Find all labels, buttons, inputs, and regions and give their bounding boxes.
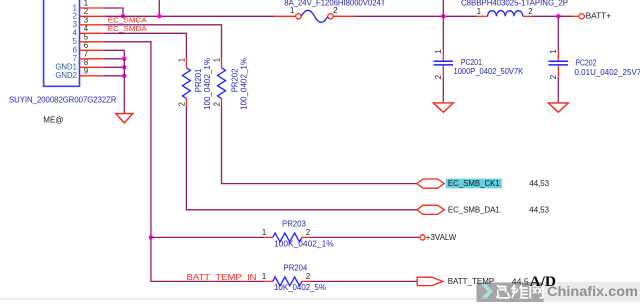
node junction pin6/pin7	[122, 57, 127, 62]
wire pin6	[80, 50, 125, 59]
svg-text:1: 1	[290, 6, 294, 15]
connector J1 SUYIN_200082GR007G232ZR body	[44, 0, 80, 86]
watermark banner background	[0, 282, 640, 302]
svg-text:EC_SMB_DA1: EC_SMB_DA1	[448, 205, 500, 214]
svg-text:PC202: PC202	[575, 58, 596, 67]
capacitor PC202 reference label	[575, 58, 596, 67]
sheet reference 44,53 for CK1	[529, 179, 549, 188]
sheet reference 44,5 for BATT_TEMP	[512, 277, 530, 286]
wire PR201 to EC_SMB_DA1	[186, 105, 417, 209]
resistor PR203 reference label	[282, 219, 306, 228]
wire main BATT net horizontal	[105, 15, 572, 17]
svg-text:2: 2	[549, 75, 558, 79]
ground under PC201	[433, 103, 453, 112]
svg-text:44,53: 44,53	[529, 179, 549, 188]
port BATT_TEMP	[417, 277, 443, 285]
svg-text:2: 2	[306, 228, 310, 237]
inductor symbol coil	[476, 11, 532, 17]
inductor pin number 2	[528, 7, 532, 16]
inductor L? C8BBPH403025-1TAPING_2P label	[461, 0, 568, 8]
svg-text:2: 2	[528, 7, 532, 16]
svg-text:1: 1	[434, 49, 443, 53]
node junction up-stub on main net	[157, 14, 162, 19]
net label EC_SMCA	[108, 16, 147, 25]
svg-text:BATT+: BATT+	[586, 11, 612, 20]
fuse PF? 8A_24V_F1206HI8000V024T label	[284, 0, 385, 8]
capacitor PC201 value label	[454, 67, 524, 76]
svg-text:BATT_TEMP: BATT_TEMP	[448, 277, 495, 286]
svg-text:1: 1	[262, 228, 266, 237]
resistor PR201	[177, 58, 190, 107]
svg-text:1: 1	[177, 58, 186, 62]
resistor PR202 value label	[239, 58, 248, 110]
ground under connector	[116, 114, 133, 123]
svg-text:+3VALW: +3VALW	[426, 233, 457, 242]
wire pin8	[80, 66, 125, 68]
capacitor PC202	[549, 16, 569, 103]
resistor PR204 reference label	[284, 263, 308, 272]
wire PR202 to EC_SMB_CK1	[222, 105, 417, 183]
svg-text:Chinafix.com: Chinafix.com	[547, 283, 638, 299]
power terminal +3VALW	[420, 233, 457, 242]
resistor PR201 value label	[203, 58, 212, 110]
svg-text:2: 2	[177, 102, 186, 106]
wire +3VALW pullup row	[151, 236, 420, 238]
svg-text:GND2: GND2	[55, 71, 77, 80]
resistor PR201 reference label	[194, 68, 203, 92]
capacitor PC201	[434, 0, 454, 103]
svg-text:1: 1	[549, 49, 558, 53]
svg-text:EC_SMB_CK1: EC_SMB_CK1	[448, 179, 500, 188]
net label BATT_TEMP	[448, 277, 495, 286]
svg-text:BATT_TEMP_IN: BATT_TEMP_IN	[187, 273, 257, 282]
svg-text:2: 2	[333, 6, 337, 15]
resistor PR202	[213, 58, 226, 107]
wire pin5 battery temp net	[80, 42, 151, 238]
connector J1 pin name labels	[55, 3, 77, 80]
svg-text:100_0402_1%: 100_0402_1%	[239, 58, 248, 110]
svg-text:1: 1	[262, 272, 266, 281]
port EC_SMB_DA1	[417, 205, 444, 214]
svg-text:1: 1	[477, 7, 481, 16]
svg-text:PR203: PR203	[282, 219, 306, 228]
port EC_SMB_CK1	[417, 179, 444, 188]
watermark chinese characters	[497, 285, 543, 298]
wire pin1 stub	[80, 8, 124, 16]
svg-text:0.01U_0402_25V7K: 0.01U_0402_25V7K	[575, 68, 640, 77]
svg-text:100K_0402_1%: 100K_0402_1%	[274, 239, 334, 248]
svg-text:1: 1	[213, 58, 222, 62]
node junction temp net split	[149, 235, 154, 240]
svg-text:2: 2	[434, 75, 443, 79]
wire pin7	[80, 58, 125, 60]
watermark chevron logo	[481, 284, 493, 298]
resistor PR204 value label	[274, 283, 326, 292]
net label BATT_TEMP_IN	[187, 273, 257, 282]
connector J1 pin numbers 1-9	[84, 0, 89, 75]
node junction pin9	[122, 74, 127, 79]
wire pin4 EC_SMDA net	[80, 33, 187, 58]
power terminal BATT+	[572, 11, 612, 20]
wire BATT_TEMP row	[151, 237, 417, 281]
svg-text:PC201: PC201	[461, 58, 482, 67]
wire stub up to off-page	[158, 0, 160, 16]
fuse symbol	[274, 10, 355, 22]
fuse pin number 2	[333, 6, 337, 15]
wire ground bus vertical	[123, 59, 125, 114]
node junction pin8	[122, 65, 127, 70]
node junction PC201 tap	[441, 14, 446, 19]
svg-text:44,5: 44,5	[512, 277, 530, 286]
svg-text:10K_0402_5%: 10K_0402_5%	[274, 283, 326, 292]
net label EC_SMB_CK1 highlighted	[446, 179, 502, 189]
resistor PR202 reference label	[231, 68, 240, 92]
resistor PR203 value label	[274, 239, 334, 248]
inductor pin number 1	[477, 7, 481, 16]
wire pin3 EC_SMCA net	[80, 25, 222, 59]
ground under PC202	[548, 103, 568, 112]
capacitor PC201 reference label	[461, 58, 482, 67]
svg-text:PR204: PR204	[284, 263, 308, 272]
watermark Chinafix.com	[547, 283, 638, 299]
resistor PR204	[262, 272, 310, 286]
svg-text:100_0402_1%: 100_0402_1%	[203, 58, 212, 110]
annotation A/D	[530, 274, 557, 290]
capacitor PC202 value label	[575, 68, 640, 77]
wire pin2 stub	[80, 15, 105, 17]
fuse pin number 1	[290, 6, 294, 15]
net label EC_SMB_DA1	[448, 205, 500, 214]
svg-text:EC_SMDA: EC_SMDA	[108, 24, 147, 33]
connector J1 part number label	[9, 96, 117, 105]
sheet reference 44,53 for DA1	[529, 205, 549, 214]
connector J1 ME@ label	[43, 116, 63, 125]
svg-text:ME@: ME@	[43, 116, 63, 125]
net label EC_SMDA	[108, 24, 147, 33]
node junction pin1 to main net	[121, 14, 126, 19]
svg-text:1000P_0402_50V7K: 1000P_0402_50V7K	[454, 67, 524, 76]
svg-text:2: 2	[213, 102, 222, 106]
svg-text:SUYIN_200082GR007G232ZR: SUYIN_200082GR007G232ZR	[9, 96, 117, 105]
svg-text:2: 2	[306, 272, 310, 281]
resistor PR203	[262, 228, 310, 242]
node junction PC202 tap	[556, 14, 561, 19]
wire pin9	[80, 75, 125, 77]
svg-text:PR201: PR201	[194, 68, 203, 92]
svg-text:44,53: 44,53	[529, 205, 549, 214]
